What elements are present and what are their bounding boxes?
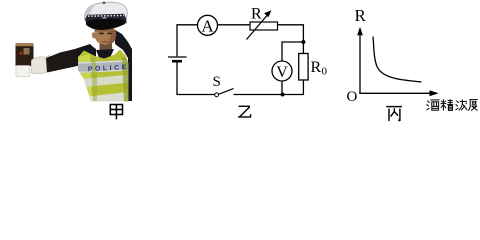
cap white crown xyxy=(84,2,127,19)
rheostat R box xyxy=(250,22,278,30)
wire: down to resistor R0 xyxy=(302,42,304,54)
cap band checkered strip xyxy=(88,14,124,17)
cap emblem xyxy=(102,17,108,23)
officer face xyxy=(95,27,117,45)
officer neck xyxy=(100,42,113,52)
device white lower panel xyxy=(16,66,30,77)
mouth xyxy=(102,41,108,42)
brim shadow on face xyxy=(95,29,116,33)
svg-text:0: 0 xyxy=(322,66,328,78)
wire: between ammeter and rheostat xyxy=(218,24,251,26)
breathalyzer device body xyxy=(16,43,34,66)
device small display xyxy=(24,48,30,55)
svg-text:R: R xyxy=(251,6,262,23)
device red indicator xyxy=(19,52,22,55)
dark chest under collar xyxy=(96,49,114,60)
cap top button xyxy=(103,2,106,5)
wire: voltmeter branch horizontal xyxy=(282,42,303,61)
wire: top-left vertical xyxy=(176,25,178,57)
crown shading xyxy=(84,4,95,19)
label 甲 xyxy=(110,105,122,120)
battery short plate xyxy=(172,60,182,63)
vest highlight left xyxy=(78,54,92,102)
cap brim xyxy=(86,19,125,30)
battery long plate xyxy=(168,56,187,58)
svg-text:O: O xyxy=(347,89,358,105)
junction node (bottom) xyxy=(281,93,285,97)
x axis xyxy=(359,92,430,94)
switch pivot xyxy=(215,93,219,97)
label 酒精浓度 (x axis) xyxy=(426,99,477,110)
voltmeter V xyxy=(272,61,292,81)
vest reflective band xyxy=(78,60,131,73)
wire: bottom left segment xyxy=(176,94,214,96)
y axis arrowhead xyxy=(357,27,363,35)
svg-text:R: R xyxy=(311,59,322,76)
svg-text:S: S xyxy=(213,74,221,90)
wire: rheostat to top-right corner and down xyxy=(278,25,304,42)
wire: left vertical below battery xyxy=(176,62,178,95)
浓 xyxy=(456,101,458,103)
wire: top horizontal left of ammeter xyxy=(176,24,197,26)
left ear xyxy=(92,33,95,39)
vest fold shadow xyxy=(91,57,97,102)
eyes xyxy=(99,33,103,35)
white glove xyxy=(31,57,48,74)
cuff sliver xyxy=(44,55,51,62)
svg-text:R: R xyxy=(355,6,367,25)
switch S lever xyxy=(219,89,234,95)
vest body xyxy=(78,50,129,102)
left shoulder jacket xyxy=(75,44,96,61)
wire: voltmeter to bottom xyxy=(281,81,283,95)
svg-text:A: A xyxy=(201,17,214,36)
vest right shade xyxy=(122,56,129,102)
y axis xyxy=(359,34,361,94)
label 乙 xyxy=(238,106,251,117)
vest bottom pale area xyxy=(88,92,128,102)
cap band xyxy=(85,14,127,25)
face shading right xyxy=(106,29,116,45)
curve R vs concentration xyxy=(373,37,422,83)
度 xyxy=(469,99,477,101)
wire: bottom right segment to switch xyxy=(234,94,283,96)
svg-text:V: V xyxy=(276,64,288,81)
label 丙 xyxy=(386,107,402,121)
junction node (top) xyxy=(301,40,305,44)
ammeter A xyxy=(198,15,218,35)
right jacket and arm xyxy=(115,30,132,101)
device top strip xyxy=(16,43,34,46)
officer extended arm sleeve xyxy=(46,45,96,73)
wire: R0 to bottom-right corner xyxy=(282,80,303,95)
rheostat arrow xyxy=(247,16,268,40)
band edge highlights xyxy=(78,60,131,64)
x axis arrowhead xyxy=(430,90,439,96)
精 xyxy=(442,99,444,110)
resistor R0 box xyxy=(299,54,308,81)
vest lower pale stripe xyxy=(83,75,129,88)
酒 xyxy=(427,101,429,103)
